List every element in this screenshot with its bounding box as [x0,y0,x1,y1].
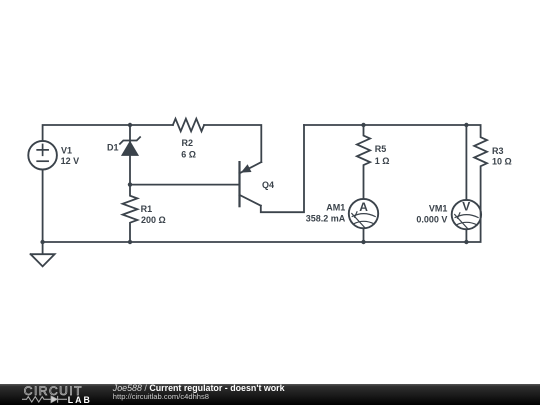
svg-text:R3: R3 [492,146,504,156]
svg-text:VM1: VM1 [429,203,448,213]
svg-text:LAB: LAB [68,395,92,405]
node dot top of R5 [361,123,365,127]
wire V1 bottom to ground rail [42,170,44,243]
node dot top of VM1 [464,123,468,127]
wire top rail right [304,124,466,126]
resistor R3 and loop wire [466,125,487,242]
svg-text:R1: R1 [141,204,153,214]
svg-text:10 Ω: 10 Ω [492,157,512,167]
wire Q4 collector to right riser [261,125,304,212]
logo diode [51,396,57,403]
svg-text:0.000 V: 0.000 V [416,214,447,224]
svg-text:A: A [359,200,368,214]
resistor R5 [357,125,370,199]
svg-text:V1: V1 [61,145,72,155]
svg-text:200 Ω: 200 Ω [141,215,166,225]
node dot bottom of R1 [128,240,132,244]
wire base (node to Q4) [130,184,240,186]
node dot bottom of AM1 [361,240,365,244]
voltage source V1 [28,141,57,170]
svg-text:Q4: Q4 [262,180,274,190]
node dot top of D1 [128,123,132,127]
svg-text:http://circuitlab.com/c4dhhs8: http://circuitlab.com/c4dhhs8 [113,392,209,401]
transistor Q4 [240,162,262,206]
svg-text:D1: D1 [107,143,119,153]
diode D1 (zener) [120,125,140,185]
svg-text:V: V [462,200,470,214]
svg-text:1 Ω: 1 Ω [375,156,390,166]
node dot ground [40,240,44,244]
wire top rail left (V1 to R2) [43,125,173,141]
svg-text:AM1: AM1 [326,203,345,213]
svg-text:12 V: 12 V [61,156,80,166]
node dot base node [128,182,132,186]
voltmeter VM1 [452,125,481,242]
ammeter AM1 [349,199,378,242]
bottom rail [43,241,467,243]
svg-text:R2: R2 [182,138,194,148]
logo resistor [22,397,51,402]
svg-text:358.2 mA: 358.2 mA [306,214,346,224]
svg-text:R5: R5 [375,144,387,154]
node dot bottom of VM1 [464,240,468,244]
ground [31,242,55,266]
resistor R2 [173,119,204,132]
resistor R1 [123,185,138,242]
svg-text:6 Ω: 6 Ω [181,150,196,160]
wire R2 to Q4 emitter [204,125,261,162]
